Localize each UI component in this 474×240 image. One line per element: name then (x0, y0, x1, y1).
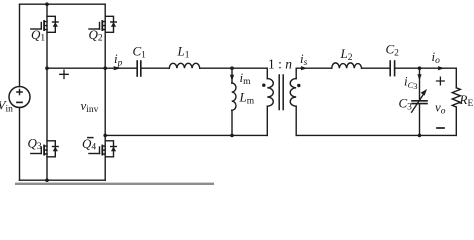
junction node Lm bottom (230, 134, 234, 138)
scan artifact gray bar (15, 183, 214, 185)
resistor RE (452, 88, 460, 107)
svg-text:is: is (300, 51, 308, 68)
transformer core (279, 75, 283, 110)
wire top rail (20, 3, 106, 5)
junction node Lm top (230, 66, 234, 70)
transformer secondary winding (290, 68, 296, 135)
transistor Q4 (89, 141, 116, 157)
plus sign vinv (60, 70, 68, 78)
transistor Q3 (31, 141, 58, 157)
svg-text:C2: C2 (386, 42, 400, 59)
capacitor C2 (390, 61, 394, 76)
transistor Q1 (31, 16, 58, 32)
svg-text:1 : n: 1 : n (268, 56, 292, 71)
junction node A (45, 66, 49, 70)
inductor L2 (332, 63, 362, 68)
capacitor C3 branch top (419, 68, 421, 100)
svg-text:Q3: Q3 (28, 136, 42, 153)
arrow ip (114, 66, 121, 70)
svg-text:C1: C1 (133, 44, 147, 61)
junction node C3 bottom (418, 134, 422, 138)
junction node bottom rail / Q3 (45, 178, 49, 182)
junction node right leg on A-wire (103, 66, 107, 70)
wire left rail lower (19, 108, 21, 181)
minus sign vinv (88, 137, 93, 139)
svg-text:vinv: vinv (81, 98, 99, 115)
plus sign vo (437, 77, 445, 85)
wire RE bottom (455, 107, 457, 135)
svg-text:L1: L1 (177, 44, 190, 61)
wire L1 to transformer (200, 67, 268, 69)
wire left leg (46, 4, 48, 180)
capacitor C1 (137, 61, 141, 76)
junction node C3 top (418, 66, 422, 70)
svg-text:Q2: Q2 (89, 27, 103, 44)
wire L2 to C2 (362, 67, 390, 69)
wire left rail upper (19, 4, 21, 86)
polarity dot primary (262, 84, 265, 87)
wire secondary top to L2 (296, 67, 332, 69)
junction node B (103, 134, 107, 138)
minus sign vo (437, 127, 444, 129)
wire C2 to output node (395, 67, 457, 69)
svg-text:vo: vo (435, 100, 446, 117)
inductor Lm (232, 68, 236, 135)
wire right leg (104, 4, 106, 180)
svg-text:iC3: iC3 (404, 74, 418, 92)
arrow io (438, 66, 444, 70)
svg-text:RE: RE (459, 92, 474, 109)
junction node top rail / Q1 (45, 2, 49, 6)
arrow iC3 (417, 74, 421, 80)
source Vin (9, 87, 30, 108)
arrow im (230, 75, 234, 81)
polarity dot secondary (297, 84, 300, 87)
svg-text:im: im (240, 70, 252, 87)
wire C1 to L1 (141, 67, 170, 69)
arrow is (301, 66, 307, 70)
capacitor C3 branch bottom (419, 104, 421, 135)
wire bottom rail (20, 179, 106, 181)
wire node A to C1 (47, 67, 137, 69)
svg-text:ip: ip (114, 51, 123, 69)
svg-text:io: io (432, 49, 441, 66)
inductor L1 (169, 63, 199, 68)
wire secondary bottom (296, 134, 456, 136)
svg-text:L2: L2 (340, 46, 353, 63)
variable arrow of C3 (412, 89, 427, 112)
wire output right drop (455, 68, 457, 88)
svg-text:Lm: Lm (239, 90, 255, 107)
svg-text:C3: C3 (399, 96, 413, 113)
svg-text:Vin: Vin (0, 98, 13, 115)
svg-text:Q4: Q4 (82, 136, 96, 153)
transistor Q2 (89, 16, 116, 32)
capacitor C3 plates (412, 101, 427, 104)
transformer primary winding (267, 68, 273, 135)
wire node B (105, 134, 267, 136)
